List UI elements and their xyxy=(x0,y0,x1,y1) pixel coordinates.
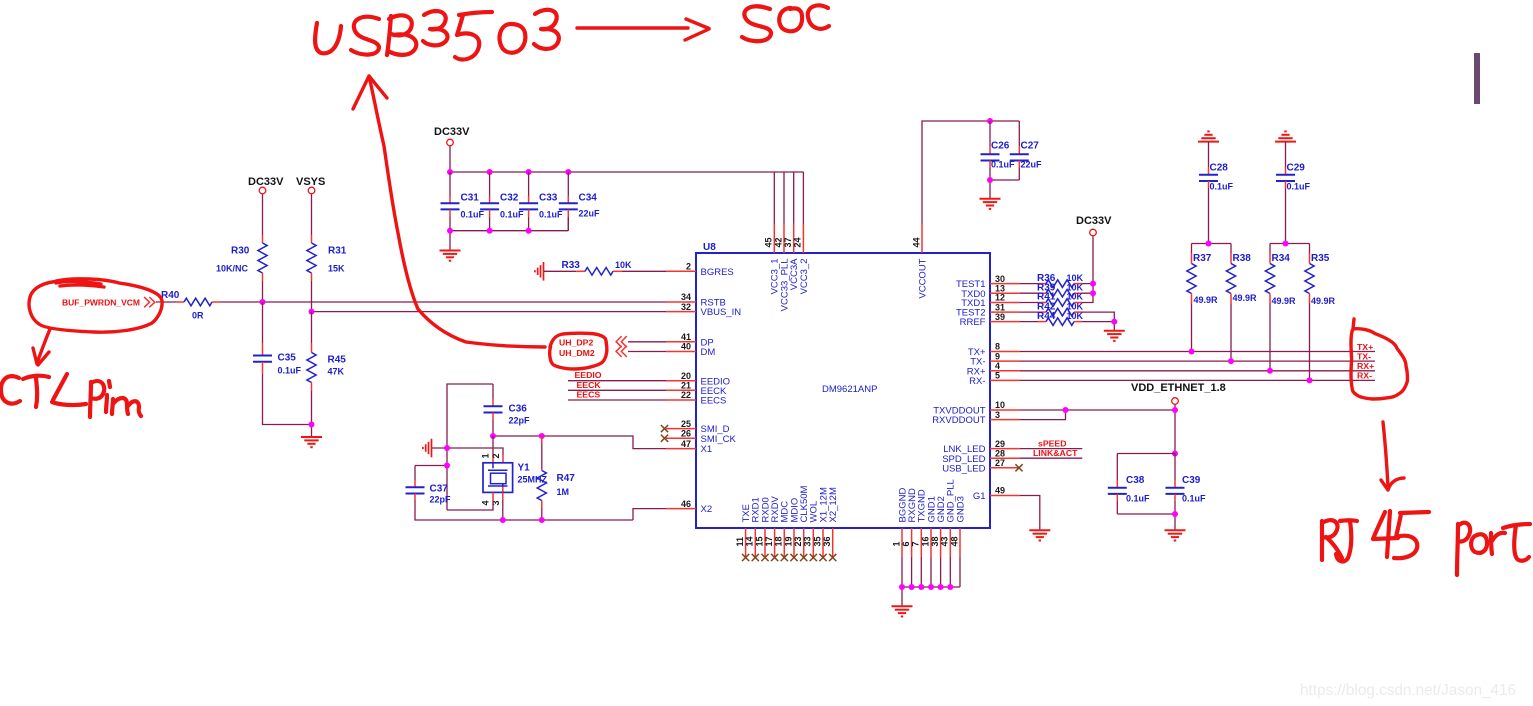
svg-text:26: 26 xyxy=(681,428,691,438)
wire C37 bottom to bus xyxy=(415,494,633,521)
node junction X1/R47 xyxy=(539,433,545,439)
annotation arrow to CTL Pin xyxy=(33,329,50,365)
wire DP net xyxy=(628,341,666,343)
svg-text:0.1uF: 0.1uF xyxy=(1126,494,1150,504)
node junction C26 bottom xyxy=(987,177,993,183)
svg-text:C31: C31 xyxy=(461,193,480,204)
svg-text:R31: R31 xyxy=(328,246,347,257)
svg-text:0.1uF: 0.1uF xyxy=(1287,182,1311,192)
node TX+ label xyxy=(1357,342,1373,352)
node junction VDD terminal xyxy=(1172,407,1178,413)
svg-text:10: 10 xyxy=(995,400,1005,410)
svg-text:RX-: RX- xyxy=(1357,371,1372,381)
svg-text:45: 45 xyxy=(764,237,774,247)
pin 10 TXVDDOUT (right) xyxy=(933,400,1020,416)
annotation ellipse around BUF_PWRDN_VCM xyxy=(29,279,162,332)
svg-text:R37: R37 xyxy=(1193,253,1212,264)
ground below C26 xyxy=(980,199,1001,209)
pin 13 TXD0 (right) xyxy=(961,283,1020,299)
node dots bottom bus xyxy=(447,228,532,234)
annotation arrow to RJ45 xyxy=(1381,422,1404,490)
pin 12 TXD1 (right) xyxy=(961,293,1020,309)
wire R30 column to C35 xyxy=(262,302,264,355)
pin 39 RREF (right) xyxy=(960,312,1020,328)
svg-text:R47: R47 xyxy=(557,473,576,484)
svg-text:5: 5 xyxy=(995,371,1000,381)
svg-text:Y1: Y1 xyxy=(518,463,531,474)
svg-text:22pF: 22pF xyxy=(430,495,452,505)
node junction RXVDD/TXVDD xyxy=(1063,407,1069,413)
node LINK&amp;ACT label xyxy=(1033,448,1078,458)
wire X1 node bus xyxy=(493,436,666,449)
svg-text:C26: C26 xyxy=(991,141,1010,152)
crystal Y1 xyxy=(480,436,547,506)
resistor R44 10K xyxy=(1020,311,1084,326)
pin 26 SMI_CK (left) xyxy=(666,428,737,444)
pin 17 RXDV (bottom, n.c.) xyxy=(764,495,781,561)
svg-text:LINK&ACT: LINK&ACT xyxy=(1033,448,1078,458)
wire TX- net xyxy=(1020,360,1375,362)
svg-text:15K: 15K xyxy=(328,264,345,274)
annotation circle around UH_DP2/UH_DM2 xyxy=(550,333,607,369)
svg-text:29: 29 xyxy=(995,439,1005,449)
pin 44 VCCOUT (top) xyxy=(911,224,928,299)
svg-text:32: 32 xyxy=(681,302,691,312)
pin 21 EECK (left) xyxy=(666,381,727,397)
node TX- label xyxy=(1357,351,1371,361)
pin 19 MDIO (bottom, n.c.) xyxy=(783,498,800,561)
svg-text:24: 24 xyxy=(793,237,803,247)
svg-text:0.1uF: 0.1uF xyxy=(1210,182,1234,192)
pin 25 SMI_D (left) xyxy=(666,419,730,435)
node junction C28/bus xyxy=(1206,241,1212,247)
node RX+ label xyxy=(1357,361,1374,371)
ground below GND bus xyxy=(892,606,913,616)
svg-text:R33: R33 xyxy=(562,260,581,271)
node junction R35/RX- xyxy=(1307,377,1313,383)
svg-text:C38: C38 xyxy=(1126,475,1145,486)
svg-text:47: 47 xyxy=(681,439,691,449)
wire R42/R44 to ground xyxy=(1082,312,1114,330)
svg-text:VSYS: VSYS xyxy=(296,176,325,188)
pin 7 TXGND (bottom gnd) xyxy=(911,489,928,557)
svg-text:11: 11 xyxy=(735,537,745,547)
svg-text:R35: R35 xyxy=(1311,253,1330,264)
svg-text:C29: C29 xyxy=(1287,162,1306,173)
svg-text:DM9621ANP: DM9621ANP xyxy=(822,384,877,395)
svg-text:UH_DP2: UH_DP2 xyxy=(559,337,593,347)
power terminal DC33V (cap bank) xyxy=(434,126,470,146)
svg-text:U8: U8 xyxy=(703,242,716,253)
watermark xyxy=(1300,682,1516,699)
wire crystal pin 4 to left column xyxy=(447,492,493,510)
power terminal VDD_ETHNET_1.8 xyxy=(1131,382,1226,404)
node sPEED label xyxy=(1038,438,1067,448)
wire R47 bottom to bus xyxy=(541,501,543,521)
resistor R38 49.9R xyxy=(1226,253,1257,361)
svg-text:12: 12 xyxy=(995,293,1005,303)
svg-text:38: 38 xyxy=(930,536,940,546)
wire cap bank bottom bus xyxy=(450,217,568,250)
pin 1 BGGND (bottom gnd) xyxy=(891,488,908,557)
svg-text:USB_LED: USB_LED xyxy=(942,463,985,474)
ground below R45 xyxy=(301,437,322,447)
wire DC33V pull-up column xyxy=(1082,236,1093,302)
pin 18 MDC (bottom, n.c.) xyxy=(774,501,791,561)
pin 38 GND2 (bottom gnd) xyxy=(930,496,947,557)
resistor R34 49.9R xyxy=(1265,253,1296,371)
capacitor C34 xyxy=(559,172,600,231)
wire DC33V bank top bus xyxy=(450,146,803,172)
svg-text:39: 39 xyxy=(995,312,1005,322)
node junction R37/TX+ xyxy=(1189,349,1195,355)
capacitor C29 xyxy=(1276,142,1311,244)
svg-text:4: 4 xyxy=(995,361,1000,371)
svg-text:DM: DM xyxy=(701,347,716,358)
chevron DM xyxy=(616,346,627,357)
node EEDIO label xyxy=(575,370,602,380)
svg-text:19: 19 xyxy=(783,536,793,546)
node junction R34/RX+ xyxy=(1267,368,1273,374)
pin 22 EECS (left) xyxy=(666,390,726,406)
svg-text:0.1uF: 0.1uF xyxy=(539,210,563,220)
pin 2 BGRES (left) xyxy=(666,262,734,278)
svg-text:VBUS_IN: VBUS_IN xyxy=(701,307,742,318)
pin 46 X2 (left) xyxy=(666,499,712,515)
svg-text:TX-: TX- xyxy=(1357,351,1371,361)
node BUF_PWRDN_VCM chevron xyxy=(62,297,155,307)
pin 32 VBUS_IN (left) xyxy=(666,302,741,318)
svg-text:10K: 10K xyxy=(1067,311,1084,321)
resistor R33 xyxy=(562,260,633,275)
capacitor C26 xyxy=(981,121,1016,180)
svg-text:1: 1 xyxy=(891,541,901,546)
ground below R42/R44 xyxy=(1104,331,1125,341)
svg-text:R45: R45 xyxy=(328,355,347,366)
svg-text:25: 25 xyxy=(681,419,691,429)
svg-text:14: 14 xyxy=(745,536,755,546)
annotation handwriting CTL Pin xyxy=(1,374,141,417)
pin 34 RSTB (left) xyxy=(666,292,726,308)
capacitor C37 xyxy=(406,484,452,505)
svg-text:49: 49 xyxy=(995,486,1005,496)
pin 28 SPD_LED (right) xyxy=(942,448,1020,464)
node junction C39 bottom xyxy=(1172,511,1178,517)
svg-text:SMI_CK: SMI_CK xyxy=(701,434,737,445)
wire C35 bottom to gnd bus xyxy=(263,362,312,425)
svg-text:0.1uF: 0.1uF xyxy=(278,366,302,376)
svg-text:10K: 10K xyxy=(1067,273,1084,283)
annotation curved arrow to USB3503 xyxy=(353,76,545,347)
wire chevron to R40 xyxy=(156,301,184,303)
svg-text:25MHZ: 25MHZ xyxy=(518,475,548,485)
svg-text:47K: 47K xyxy=(328,367,345,377)
node junction R31/VBUS_IN xyxy=(309,309,315,315)
svg-text:42: 42 xyxy=(773,237,783,247)
wire DC33V to R30 xyxy=(262,194,264,243)
svg-text:UH_DM2: UH_DM2 xyxy=(559,348,595,358)
wire VCCOUT to C26/C27 xyxy=(922,121,1019,224)
svg-text:27: 27 xyxy=(995,458,1005,468)
resistor R45 xyxy=(307,353,346,383)
node dots top bus xyxy=(447,169,571,175)
svg-text:C36: C36 xyxy=(509,404,528,415)
svg-text:DC33V: DC33V xyxy=(1076,215,1112,227)
svg-text:EECK: EECK xyxy=(577,380,602,390)
resistor R39 10K xyxy=(1020,282,1084,297)
svg-text:31: 31 xyxy=(995,302,1005,312)
pin 14 RXD1 (bottom, n.c.) xyxy=(745,497,762,561)
wire gnd to R33 xyxy=(544,270,585,272)
wire gnd to crystal pin2 xyxy=(432,448,503,463)
chevron DP xyxy=(616,336,627,347)
wire TXVDDOUT/RXVDDOUT net xyxy=(1020,405,1175,454)
svg-text:X1: X1 xyxy=(701,444,713,455)
svg-text:EEDIO: EEDIO xyxy=(575,370,602,380)
pin 20 EEDIO (left) xyxy=(666,371,730,387)
annotation arrow to SOC xyxy=(577,19,709,40)
pin 4 RX+ (right) xyxy=(967,361,1020,377)
svg-text:23: 23 xyxy=(793,536,803,546)
svg-text:16: 16 xyxy=(920,536,930,546)
wire ground bus below GND pins xyxy=(902,557,960,606)
svg-text:36: 36 xyxy=(822,536,832,546)
svg-text:1: 1 xyxy=(480,453,490,458)
node junction C37/left column xyxy=(444,463,450,469)
wire C26/C27 bottom bus xyxy=(990,180,1019,198)
svg-text:TX+: TX+ xyxy=(1357,342,1373,352)
pin 45 VCC3_1 (top) xyxy=(764,224,781,295)
pin 3 RXVDDOUT (right) xyxy=(932,410,1020,426)
svg-text:1M: 1M xyxy=(557,487,570,497)
wire R45 to gnd node xyxy=(311,383,313,437)
wire VBUS_IN net (R31 to pin 32) xyxy=(312,311,667,313)
ground below G1 xyxy=(1029,530,1050,540)
svg-text:20: 20 xyxy=(681,371,691,381)
pin 5 RX- (right) xyxy=(969,371,1020,387)
pin 16 GND1 (bottom gnd) xyxy=(920,496,937,557)
annotation handwriting RJ 45 Port xyxy=(1322,511,1530,575)
wire C36 bottom to X1 node xyxy=(492,413,494,437)
svg-text:C37: C37 xyxy=(430,484,449,495)
svg-text:15: 15 xyxy=(754,536,764,546)
node junction C35/R45 gnd xyxy=(309,422,315,428)
capacitor C27 xyxy=(1010,121,1042,180)
pin 42 VCC33_PLL (top) xyxy=(773,224,790,312)
pin 23 CLK50M (bottom, n.c.) xyxy=(793,485,810,561)
node EECK label xyxy=(577,380,602,390)
pin 30 TEST1 (right) xyxy=(956,274,1020,290)
svg-text:R30: R30 xyxy=(231,246,250,257)
ground (sideways) at crystal xyxy=(423,439,432,458)
pin 24 VCC3_2 (top) xyxy=(793,224,810,295)
wire EEDIO net xyxy=(568,380,666,382)
node junction gnd/left column xyxy=(444,445,450,451)
node junction R30/RSTB xyxy=(260,299,266,305)
svg-text:0.1uF: 0.1uF xyxy=(461,210,485,220)
node junction R47/bus xyxy=(539,517,545,523)
svg-text:22uF: 22uF xyxy=(579,209,601,219)
annotation blob around TX/RX labels xyxy=(1351,319,1408,399)
svg-text:48: 48 xyxy=(949,536,959,546)
wire C36 top loop xyxy=(447,384,493,510)
power terminal VSYS xyxy=(296,176,325,194)
svg-text:VCC3_2: VCC3_2 xyxy=(799,259,810,295)
svg-text:R40: R40 xyxy=(161,290,180,301)
wire SPD_LED net xyxy=(1020,457,1082,459)
wire C38/C39 top bus xyxy=(1117,454,1175,481)
node junction R36 xyxy=(1090,281,1096,287)
svg-text:BUF_PWRDN_VCM: BUF_PWRDN_VCM xyxy=(62,298,140,308)
svg-text:7: 7 xyxy=(911,541,921,546)
svg-text:VDD_ETHNET_1.8: VDD_ETHNET_1.8 xyxy=(1131,382,1226,394)
svg-text:VCCOUT: VCCOUT xyxy=(917,258,928,298)
resistor R41 10K xyxy=(1020,292,1084,307)
pin 48 GND3 (bottom gnd) xyxy=(949,496,966,557)
svg-text:C34: C34 xyxy=(579,193,598,204)
svg-text:EECS: EECS xyxy=(577,390,601,400)
svg-text:34: 34 xyxy=(681,292,691,302)
pin 37 VCC3A (top) xyxy=(783,224,800,291)
svg-text:44: 44 xyxy=(911,237,921,247)
node UH_DP2 / UH_DM2 labels xyxy=(559,337,595,358)
node junction R44/gnd xyxy=(1111,319,1117,325)
node EECS label xyxy=(577,390,601,400)
ground (inverted) above C29 xyxy=(1275,131,1296,141)
svg-text:RX-: RX- xyxy=(969,376,985,387)
svg-text:8: 8 xyxy=(995,342,1000,352)
svg-text:22pF: 22pF xyxy=(509,416,531,426)
svg-text:3: 3 xyxy=(995,410,1000,420)
wire X2 net xyxy=(633,509,666,520)
capacitor C35 xyxy=(253,353,302,376)
pin 35 X1_12M (bottom, n.c.) xyxy=(812,487,829,561)
svg-text:10K: 10K xyxy=(1067,301,1084,311)
node junction X1/C36 xyxy=(490,433,496,439)
pin 49 G1 (right) xyxy=(973,486,1020,502)
svg-text:0.1uF: 0.1uF xyxy=(1182,494,1206,504)
wire TX+ net xyxy=(1020,351,1375,353)
ground (inverted) above C28 xyxy=(1198,131,1219,141)
svg-text:C28: C28 xyxy=(1210,162,1229,173)
svg-text:C27: C27 xyxy=(1021,141,1040,152)
svg-text:sPEED: sPEED xyxy=(1038,438,1067,448)
resistor R36 10K xyxy=(1020,273,1084,288)
wire RX- net xyxy=(1020,379,1375,381)
svg-text:10K: 10K xyxy=(1067,292,1084,302)
svg-text:RX+: RX+ xyxy=(1357,361,1374,371)
svg-text:6: 6 xyxy=(901,541,911,546)
svg-text:43: 43 xyxy=(940,536,950,546)
no-connect X on SMI_D xyxy=(661,425,668,432)
svg-text:17: 17 xyxy=(764,536,774,546)
svg-text:35: 35 xyxy=(812,536,822,546)
no-connect X on USB_LED xyxy=(1015,464,1022,471)
pin 6 RXGND (bottom gnd) xyxy=(901,488,918,557)
wire R33 to BGRES pin 2 xyxy=(613,270,666,272)
node junction C29/bus xyxy=(1283,241,1289,247)
svg-text:https://blog.csdn.net/Jason_41: https://blog.csdn.net/Jason_416 xyxy=(1300,682,1516,699)
power terminal DC33V (pull-ups) xyxy=(1076,215,1112,236)
ground below C31 xyxy=(440,251,461,261)
wire VCC pins to top bus xyxy=(774,172,803,224)
svg-text:R38: R38 xyxy=(1233,253,1252,264)
wire R34/R35 top bus xyxy=(1270,244,1310,254)
svg-text:R44: R44 xyxy=(1037,311,1056,322)
svg-text:21: 21 xyxy=(681,381,691,391)
svg-text:G1: G1 xyxy=(973,491,986,502)
node dots ground bus xyxy=(899,584,953,590)
svg-text:30: 30 xyxy=(995,274,1005,284)
wire crystal pin 3 to bottom bus xyxy=(502,492,504,520)
node junction R39 xyxy=(1090,290,1096,296)
svg-text:9: 9 xyxy=(995,351,1000,361)
svg-text:22uF: 22uF xyxy=(1021,160,1043,170)
svg-text:28: 28 xyxy=(995,448,1005,458)
node junction pin3/bus xyxy=(500,517,506,523)
pin 11 TXE (bottom, n.c.) xyxy=(735,504,752,561)
wire R31 to VBUS row xyxy=(311,273,313,312)
pin 47 X1 (left) xyxy=(666,439,712,455)
wire C38/C39 bottom bus xyxy=(1117,514,1175,530)
svg-text:EECS: EECS xyxy=(701,396,727,407)
wire C37 top xyxy=(415,466,447,488)
wire RSTB net (R40 to pin 34) xyxy=(212,301,666,303)
resistor R37 49.9R xyxy=(1187,253,1218,352)
svg-text:DC33V: DC33V xyxy=(248,176,284,188)
svg-text:R34: R34 xyxy=(1272,253,1291,264)
ground below C39 xyxy=(1165,530,1186,540)
svg-text:X2_12M: X2_12M xyxy=(828,487,839,522)
annotation handwriting SOC xyxy=(742,5,829,41)
svg-text:GND3: GND3 xyxy=(955,496,966,522)
svg-text:C35: C35 xyxy=(278,353,297,364)
capacitor C31 xyxy=(441,172,485,231)
node junction caps top xyxy=(1172,451,1178,457)
svg-text:0R: 0R xyxy=(192,311,204,321)
pin 40 DM (left) xyxy=(666,342,715,358)
pin 36 X2_12M (bottom, n.c.) xyxy=(822,487,839,561)
capacitor C38 xyxy=(1108,475,1150,514)
wire R31 column to R45 xyxy=(311,312,313,353)
capacitor C39 xyxy=(1166,454,1207,515)
pin 29 LNK_LED (right) xyxy=(943,439,1020,455)
svg-text:RXVDDOUT: RXVDDOUT xyxy=(932,415,986,426)
purple marker tick xyxy=(1474,53,1480,104)
node junction R38/TX- xyxy=(1228,358,1234,364)
svg-text:X2: X2 xyxy=(701,504,713,515)
resistor R35 49.9R xyxy=(1305,253,1336,380)
resistor R31 xyxy=(307,243,347,274)
wire G1 to ground xyxy=(1020,496,1040,530)
annotation handwriting USB3503 xyxy=(315,10,559,60)
capacitor C28 xyxy=(1199,142,1234,244)
svg-text:C32: C32 xyxy=(500,193,519,204)
svg-text:C33: C33 xyxy=(539,193,558,204)
wire EECS net xyxy=(568,399,666,401)
svg-text:18: 18 xyxy=(774,536,784,546)
svg-text:41: 41 xyxy=(681,332,691,342)
op-amp/IC U8 DM9621ANP body xyxy=(696,242,990,528)
wire R37/R38 top bus xyxy=(1192,244,1232,254)
pin 41 DP (left) xyxy=(666,332,714,348)
svg-text:2: 2 xyxy=(491,453,501,458)
svg-text:10K: 10K xyxy=(615,260,632,270)
svg-text:33: 33 xyxy=(803,536,813,546)
no-connect X on SMI_CK xyxy=(661,435,668,442)
node RX- label xyxy=(1357,371,1372,381)
capacitor C32 xyxy=(480,172,524,231)
